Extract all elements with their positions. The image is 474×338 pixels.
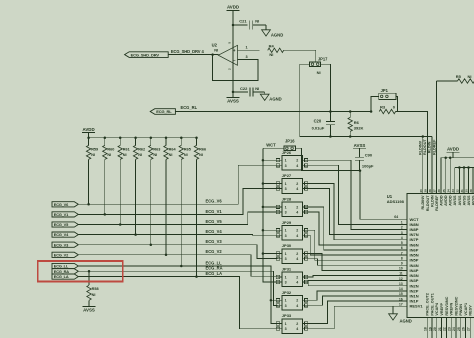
wire ECG_LL xyxy=(78,266,271,300)
net label ECG_RA xyxy=(206,266,223,271)
resistor R3 xyxy=(369,105,395,114)
svg-text:40: 40 xyxy=(419,189,423,193)
svg-text:3: 3 xyxy=(285,187,287,191)
node RLDINV branch xyxy=(422,135,425,138)
node ECG_V1 junction xyxy=(104,213,107,216)
svg-text:NI: NI xyxy=(92,293,96,297)
node C20 top xyxy=(329,110,332,113)
chip U1 ADS1198 body xyxy=(387,194,474,318)
net label ECG_LA xyxy=(206,271,223,276)
net flag ECG_V1 xyxy=(52,212,78,217)
power AVDD (resistor array) xyxy=(82,127,95,138)
wire ECG_V6 xyxy=(78,165,277,204)
svg-text:ECG_V2: ECG_V2 xyxy=(206,249,223,254)
pin VREFP (bottom) xyxy=(438,302,444,338)
resistor R65 xyxy=(179,138,191,160)
svg-text:ECG_SHD_DRV: ECG_SHD_DRV xyxy=(131,52,160,57)
svg-text:3: 3 xyxy=(285,281,287,285)
wire ECG_V2 xyxy=(78,255,277,276)
svg-text:AGND: AGND xyxy=(269,96,281,101)
svg-text:C20: C20 xyxy=(314,119,322,124)
svg-text:12: 12 xyxy=(399,277,403,281)
capacitor C20 xyxy=(312,112,335,137)
wire R64 to ECG_V2 xyxy=(165,159,167,254)
node WCT bus JP26 xyxy=(262,159,265,162)
svg-text:27: 27 xyxy=(466,327,470,331)
svg-text:RLDOUT: RLDOUT xyxy=(423,139,427,155)
svg-text:JP26: JP26 xyxy=(282,150,292,155)
svg-text:R62: R62 xyxy=(138,147,145,151)
svg-text:AGND: AGND xyxy=(271,32,283,37)
svg-text:4: 4 xyxy=(296,304,298,308)
svg-text:RLDINV: RLDINV xyxy=(419,140,423,155)
svg-text:9: 9 xyxy=(401,262,403,266)
svg-text:26: 26 xyxy=(462,327,466,331)
node AVDD bus R65 xyxy=(180,136,183,139)
svg-text:R58: R58 xyxy=(92,287,99,291)
resistor R6 xyxy=(348,112,363,137)
pin AVSS (top) xyxy=(451,187,457,206)
svg-text:22: 22 xyxy=(443,327,447,331)
svg-text:R59: R59 xyxy=(91,147,98,151)
svg-text:ECG_RL: ECG_RL xyxy=(181,105,198,110)
svg-text:5: 5 xyxy=(401,241,403,245)
wire feedback loop xyxy=(213,55,258,81)
pin IN8N xyxy=(401,221,419,227)
svg-text:4: 4 xyxy=(296,187,298,191)
svg-text:2: 2 xyxy=(296,159,298,163)
wire R62 to ECG_V4 xyxy=(135,159,137,234)
wire WCT pin to C90 node xyxy=(360,171,407,220)
svg-text:3: 3 xyxy=(285,304,287,308)
net label RLDOUT xyxy=(423,139,427,155)
pin IN3P xyxy=(399,277,419,283)
svg-text:24: 24 xyxy=(452,327,456,331)
node AVDD bus R63 xyxy=(150,136,153,139)
pin VREFN (bottom) xyxy=(447,302,453,338)
svg-text:3: 3 xyxy=(285,210,287,214)
node AVDD bus R62 xyxy=(134,136,137,139)
svg-text:ECG_V5: ECG_V5 xyxy=(54,222,69,227)
wire op-amp output xyxy=(168,54,218,56)
node WCT bus JP28 xyxy=(262,206,265,209)
svg-text:ECG_V6: ECG_V6 xyxy=(54,202,69,207)
pin PACE_OUT2 (bottom) xyxy=(424,293,430,338)
wire JP29 pin2 to IN5P xyxy=(306,230,407,260)
svg-text:ECG_RL: ECG_RL xyxy=(156,109,172,114)
net flag ECG_V4 xyxy=(52,232,78,237)
wire ECG_LL branch JP32 pin1 xyxy=(271,299,278,301)
wire JP31 pin4 to IN2N xyxy=(306,282,407,286)
svg-text:392K: 392K xyxy=(354,126,364,131)
net label ECG_V4 xyxy=(206,229,223,234)
pin RESV (bottom) xyxy=(466,305,472,338)
svg-text:2: 2 xyxy=(296,299,298,303)
pin AVSS (top) xyxy=(455,187,461,206)
svg-text:R63: R63 xyxy=(153,147,160,151)
wire ECG_V4 xyxy=(78,234,277,237)
net label RLDREF xyxy=(432,139,436,155)
pin RLDINV (top) xyxy=(419,187,425,210)
svg-text:NI: NI xyxy=(468,74,472,79)
net label RLDIN xyxy=(428,141,432,153)
wire JP28 pin2 to IN6P xyxy=(306,207,407,250)
node ECG_LL to JP32 xyxy=(270,299,273,302)
svg-text:39: 39 xyxy=(423,189,427,193)
resistor R4 xyxy=(268,43,284,57)
svg-text:AVSS: AVSS xyxy=(83,308,95,313)
svg-text:6: 6 xyxy=(401,246,403,250)
wire R59 to ECG_V6 xyxy=(88,159,90,204)
net flag ECG_V5 xyxy=(52,222,78,227)
wire AVSS bus (chip) xyxy=(455,166,474,187)
svg-text:ECG_V1: ECG_V1 xyxy=(206,209,223,214)
wire RLD lower node xyxy=(300,136,432,138)
svg-text:ECG_LA: ECG_LA xyxy=(54,274,69,279)
wire ECG_LL to JP33 pin1 xyxy=(271,300,278,323)
net label ECG_RL xyxy=(181,105,198,110)
wire WCT to JP27 pin1 xyxy=(263,183,278,185)
svg-text:−: − xyxy=(233,58,236,63)
svg-text:AVDD: AVDD xyxy=(447,147,459,152)
svg-text:4: 4 xyxy=(296,281,298,285)
svg-text:AVSS: AVSS xyxy=(458,195,462,206)
wire ECG_V5 xyxy=(78,212,277,225)
wire ECG_RL xyxy=(175,111,370,113)
pin WCT xyxy=(410,217,420,222)
wire WCT to JP28 pin1 xyxy=(263,206,278,208)
pin 3 label xyxy=(246,55,248,59)
svg-text:ECG_LL: ECG_LL xyxy=(206,260,223,265)
pin IN1N xyxy=(399,292,419,298)
wire C21 left xyxy=(233,24,248,26)
pin IN7N xyxy=(401,231,419,237)
net flag ECG_RL xyxy=(150,109,175,115)
svg-text:VCAP1: VCAP1 xyxy=(464,303,468,316)
svg-text:VCAP4: VCAP4 xyxy=(435,302,439,316)
wire JP26 pin4 to IN8N xyxy=(306,165,407,224)
wire JP28 pin4 to IN6N xyxy=(306,212,407,245)
svg-text:2: 2 xyxy=(296,322,298,326)
pin IN5P xyxy=(401,256,419,262)
wire ECG_V3 xyxy=(78,245,277,259)
power AVSS (C90) xyxy=(353,143,366,157)
svg-text:4: 4 xyxy=(296,327,298,331)
pin PACE_OUT1 (bottom) xyxy=(428,293,434,338)
wire IN3P branch xyxy=(308,281,407,286)
svg-text:RESV1: RESV1 xyxy=(410,304,424,309)
wire JP17 pin1 to RLD node xyxy=(300,64,310,136)
svg-text:AVDD: AVDD xyxy=(444,195,448,206)
power AVDD (op-amp) xyxy=(227,5,240,25)
svg-text:ECG_LA: ECG_LA xyxy=(206,271,223,276)
wire R61 to ECG_V5 xyxy=(119,159,121,224)
net label WCT xyxy=(266,142,276,147)
wire op-amp power vertical xyxy=(232,25,234,92)
node R6 top xyxy=(349,110,352,113)
svg-text:VREFP: VREFP xyxy=(440,302,444,315)
wire R65 to ECG_LL xyxy=(180,159,182,266)
svg-text:RLDREF: RLDREF xyxy=(432,139,436,155)
svg-text:1: 1 xyxy=(246,45,248,49)
svg-text:4: 4 xyxy=(296,210,298,214)
svg-text:ECG_V3: ECG_V3 xyxy=(206,239,223,244)
wire WCT to JP26 pin1 xyxy=(263,159,278,161)
svg-text:1: 1 xyxy=(285,159,287,163)
pin RLDOUT (top) xyxy=(423,187,429,211)
svg-text:36: 36 xyxy=(437,189,441,193)
svg-text:RLDINV: RLDINV xyxy=(421,195,425,210)
svg-text:10: 10 xyxy=(399,267,403,271)
wire JP32 pin2 to IN2P xyxy=(306,291,407,300)
svg-text:JP33: JP33 xyxy=(282,313,292,318)
svg-text:JP30: JP30 xyxy=(282,243,292,248)
svg-text:100pF: 100pF xyxy=(362,164,374,169)
svg-text:34: 34 xyxy=(446,189,450,193)
node WCT bus JP30 xyxy=(262,252,265,255)
connector JP33 xyxy=(276,313,308,333)
node ECG_V2 junction xyxy=(165,254,168,256)
svg-text:14: 14 xyxy=(399,287,403,291)
resistor R64 xyxy=(164,138,177,160)
wire RLDIN vertical xyxy=(431,137,433,194)
wire JP30 pin4 to IN4N xyxy=(306,259,407,266)
node AVDD bus R66 xyxy=(195,136,198,139)
svg-text:NI: NI xyxy=(214,47,218,52)
node ECG_LA junction xyxy=(195,275,198,278)
pin RESV2/NC (bottom) xyxy=(452,296,458,338)
net label ECG_V2 xyxy=(206,249,223,254)
power AVDD (chip) xyxy=(447,147,460,158)
svg-text:16: 16 xyxy=(399,297,403,301)
pin IN2P xyxy=(399,287,419,293)
resistor R66 xyxy=(194,138,206,160)
svg-text:NI: NI xyxy=(169,153,173,157)
pin IN4N xyxy=(401,262,419,268)
svg-text:PACE_OUT2: PACE_OUT2 xyxy=(426,293,430,316)
pin VCAP1 (bottom) xyxy=(462,303,468,338)
power AVSS (R58) xyxy=(83,304,96,312)
power AVSS (op-amp) xyxy=(227,92,240,104)
node WCT bus JP27 xyxy=(262,182,265,185)
wire op-amp +in to R4 xyxy=(238,49,260,51)
wire WCT to JP16 xyxy=(263,147,284,149)
svg-text:ECG_V4: ECG_V4 xyxy=(206,229,223,234)
net flag ECG_V2 xyxy=(52,252,78,257)
pin IN3N xyxy=(399,272,418,278)
svg-text:AVSS: AVSS xyxy=(467,195,471,206)
svg-text:29: 29 xyxy=(469,189,473,193)
wire ECG_V1 xyxy=(78,189,277,215)
svg-text:WCT: WCT xyxy=(266,142,276,147)
svg-text:AVDD: AVDD xyxy=(449,195,453,206)
node C90 bottom xyxy=(359,169,362,172)
resistor R63 xyxy=(149,138,161,160)
pin AVSS (top) xyxy=(469,187,474,206)
svg-text:4: 4 xyxy=(296,257,298,261)
svg-text:R6: R6 xyxy=(354,120,360,125)
svg-text:NI: NI xyxy=(199,153,203,157)
svg-text:17: 17 xyxy=(399,302,403,306)
svg-text:2: 2 xyxy=(296,205,298,209)
svg-text:35: 35 xyxy=(442,189,446,193)
svg-text:1: 1 xyxy=(285,322,287,326)
svg-text:0.01uF: 0.01uF xyxy=(312,126,325,131)
svg-text:RLDIN: RLDIN xyxy=(430,195,434,207)
pin IN7P xyxy=(401,236,419,242)
pin AVDD (top) xyxy=(442,187,448,206)
svg-text:C90: C90 xyxy=(365,152,373,157)
wire JP26 pin2 to IN8P xyxy=(306,160,407,229)
svg-text:RESV3/NC: RESV3/NC xyxy=(445,296,449,315)
pin AVDD (top) xyxy=(446,187,452,206)
svg-text:AGND: AGND xyxy=(400,319,412,324)
svg-text:11: 11 xyxy=(399,272,403,276)
svg-text:ECG_V3: ECG_V3 xyxy=(54,242,69,247)
node WCT bus JP29 xyxy=(262,229,265,232)
connector JP30 xyxy=(276,243,308,263)
pin PWDN (bottom) xyxy=(457,304,463,338)
net flag ECG_LL xyxy=(52,263,78,268)
ground AGND (RESV1) xyxy=(389,314,412,324)
svg-text:20: 20 xyxy=(433,327,437,331)
svg-text:AVSS: AVSS xyxy=(462,195,466,206)
pin IN6P xyxy=(401,246,419,252)
node JP1 left xyxy=(370,110,373,113)
svg-text:PWDN: PWDN xyxy=(459,304,463,316)
wire JP27 pin4 to IN7N xyxy=(306,189,407,235)
node ECG_V4 junction xyxy=(134,233,137,236)
svg-text:1: 1 xyxy=(285,229,287,233)
svg-text:37: 37 xyxy=(433,189,437,193)
wire JP16 to C90 node xyxy=(295,148,360,170)
svg-text:4: 4 xyxy=(296,234,298,238)
wire JP1 pin1 xyxy=(371,96,379,111)
svg-text:2: 2 xyxy=(296,229,298,233)
node R58 top xyxy=(88,270,91,273)
node AVDD bus R59 xyxy=(87,136,90,139)
resistor R59 xyxy=(86,138,98,160)
pin RLDIN (top) xyxy=(428,187,434,207)
jumper JP1 xyxy=(379,88,396,100)
svg-text:ECG_V2: ECG_V2 xyxy=(54,252,69,257)
svg-text:NI: NI xyxy=(184,153,188,157)
svg-text:2: 2 xyxy=(401,226,403,230)
node op-amp feedback junction xyxy=(211,53,214,56)
svg-text:C21: C21 xyxy=(239,19,247,24)
svg-text:8: 8 xyxy=(401,256,403,260)
wire C21 to AGND xyxy=(253,25,266,30)
wire WCT to JP29 pin1 xyxy=(263,229,278,231)
svg-text:RESV2/NC: RESV2/NC xyxy=(454,296,458,315)
pin 1 label xyxy=(246,45,248,49)
wire R63 to ECG_V3 xyxy=(150,159,152,244)
svg-text:64: 64 xyxy=(394,215,398,219)
svg-text:1: 1 xyxy=(285,205,287,209)
svg-text:15: 15 xyxy=(399,292,403,296)
svg-text:1: 1 xyxy=(285,252,287,256)
svg-text:NI: NI xyxy=(255,86,259,91)
svg-text:JP16: JP16 xyxy=(285,139,295,144)
pin AVSS (top) xyxy=(460,187,466,206)
resistor R58 xyxy=(87,271,99,304)
svg-text:4: 4 xyxy=(401,236,403,240)
svg-text:3: 3 xyxy=(401,231,403,235)
wire JP32 pin4 to IN1N xyxy=(306,296,407,305)
pin IN5N xyxy=(401,251,419,257)
net label ECG_V6 xyxy=(206,199,223,204)
pin IN6N xyxy=(401,241,419,247)
net label ECG_SHD_DRV 4 xyxy=(171,49,205,54)
svg-text:1: 1 xyxy=(401,221,403,225)
svg-text:ECG_RA: ECG_RA xyxy=(206,266,223,271)
net flag ECG_LA xyxy=(52,274,78,279)
svg-text:RLDREF: RLDREF xyxy=(435,195,439,211)
node ECG_V5 junction xyxy=(119,223,122,226)
net label ECG_V3 xyxy=(206,239,223,244)
svg-text:25: 25 xyxy=(457,327,461,331)
svg-text:R5: R5 xyxy=(456,74,462,79)
wire JP29 pin4 to IN5N xyxy=(306,235,407,255)
connector JP29 xyxy=(276,220,308,240)
net label ECG_LL xyxy=(206,260,223,265)
svg-text:R66: R66 xyxy=(199,147,206,151)
wire JP17 pin2 to ECG_RL wire xyxy=(321,64,331,111)
svg-text:NI: NI xyxy=(153,153,157,157)
svg-text:R4: R4 xyxy=(269,43,275,48)
net flag ECG_V3 xyxy=(52,242,78,247)
pin IN4P xyxy=(399,267,419,273)
connector JP31 xyxy=(276,267,308,287)
ground AGND (C22) xyxy=(260,94,281,101)
red highlight box xyxy=(38,261,123,282)
svg-text:AVSS: AVSS xyxy=(227,99,239,104)
svg-text:30: 30 xyxy=(465,189,469,193)
pin RESV3/NC (bottom) xyxy=(443,296,449,338)
svg-text:JP31: JP31 xyxy=(282,267,292,272)
svg-text:ECG_SHD_DRV 4: ECG_SHD_DRV 4 xyxy=(171,49,205,54)
pin IN2N xyxy=(399,282,419,288)
svg-text:R3: R3 xyxy=(380,105,386,110)
resistor R60 xyxy=(103,138,115,160)
svg-text:33: 33 xyxy=(451,189,455,193)
wire R66 to ECG_LA xyxy=(196,159,198,276)
node op-amp supply junction xyxy=(232,24,235,27)
svg-text:31: 31 xyxy=(460,189,464,193)
connector JP32 xyxy=(276,290,308,310)
svg-text:R60: R60 xyxy=(107,147,114,151)
pin RESV1 xyxy=(399,302,423,308)
svg-text:3: 3 xyxy=(285,327,287,331)
svg-text:JP28: JP28 xyxy=(282,196,292,201)
svg-text:38: 38 xyxy=(428,189,432,193)
svg-text:23: 23 xyxy=(447,327,451,331)
connector JP28 xyxy=(276,196,308,216)
svg-text:AVDD: AVDD xyxy=(439,195,443,206)
svg-text:ADS1198: ADS1198 xyxy=(387,199,405,204)
resistor R5 xyxy=(437,74,474,83)
svg-text:JP1: JP1 xyxy=(381,88,389,93)
pin IN8P xyxy=(401,226,419,232)
wire ECG_RA xyxy=(78,271,277,305)
net flag ECG_SHD_DRV xyxy=(125,52,169,58)
svg-text:JP32: JP32 xyxy=(282,290,292,295)
svg-text:ECG_RA: ECG_RA xyxy=(54,269,70,274)
net label ECG_V5 xyxy=(206,219,223,224)
svg-text:RLDOUT: RLDOUT xyxy=(426,195,430,211)
wire JP33 pin2 to IN1P xyxy=(306,301,407,323)
wire AVDD bus (chip) xyxy=(441,156,474,186)
